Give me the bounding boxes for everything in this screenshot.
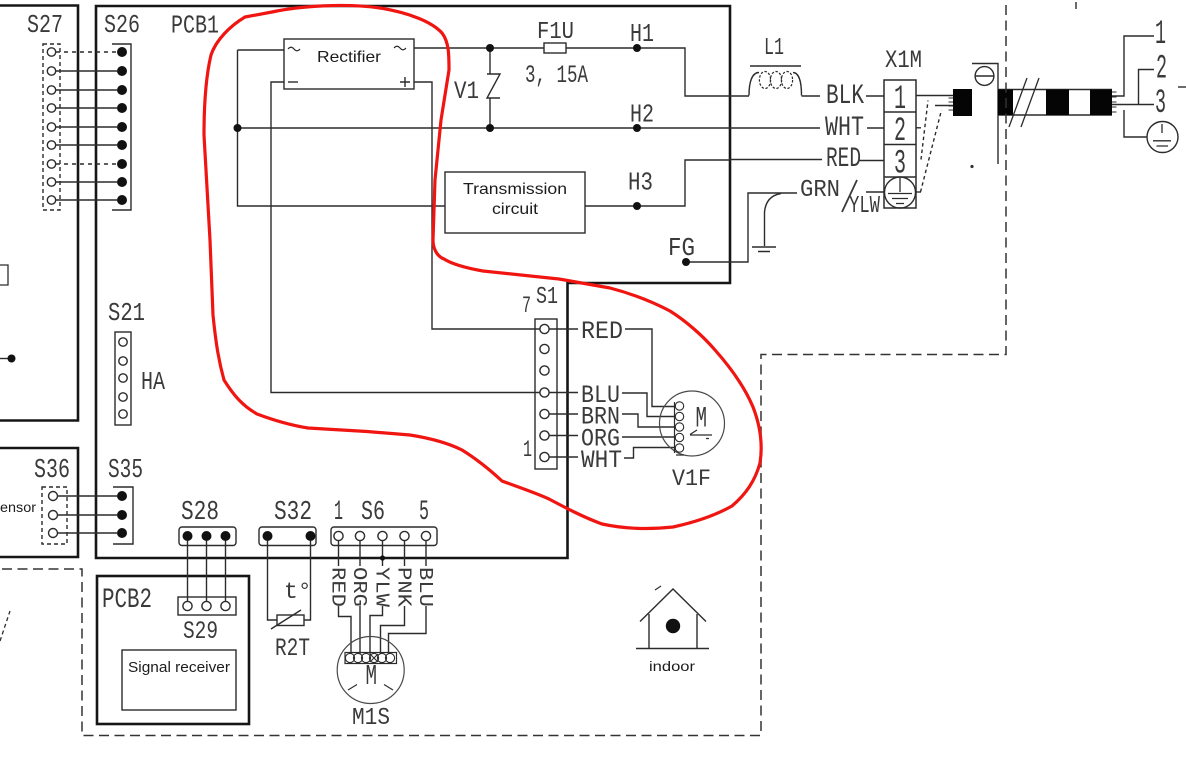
- house indoor icon apex tick: [655, 586, 661, 590]
- junction dot H3: [633, 202, 641, 210]
- svg-text:S35: S35: [108, 456, 143, 486]
- wire rectifier top to fuse to H1: [414, 48, 749, 96]
- connector S26 housing bracket: [112, 44, 131, 210]
- svg-text:S29: S29: [183, 617, 218, 646]
- connector S26 pins: [117, 47, 127, 205]
- svg-text:1: 1: [334, 497, 343, 528]
- connector S21 housing: [115, 332, 131, 425]
- svg-text:ORG: ORG: [348, 567, 370, 607]
- svg-text:S1: S1: [536, 284, 558, 311]
- connector S6 pins: [334, 531, 431, 540]
- label slash GRN/YLW: [842, 180, 857, 212]
- stray dot: [970, 165, 973, 168]
- svg-text:GRN: GRN: [800, 177, 840, 204]
- house indoor icon dot: [666, 619, 680, 633]
- connector S36 dashed housing: [42, 487, 67, 544]
- svg-text:H1: H1: [630, 19, 654, 49]
- svg-text:3: 3: [894, 146, 906, 184]
- svg-text:PCB1: PCB1: [171, 11, 219, 41]
- svg-text:BLK: BLK: [826, 81, 864, 112]
- wire PNK label to M1S connector: [381, 606, 405, 654]
- PCB1 board outline: [96, 6, 730, 558]
- svg-text:WHT: WHT: [581, 446, 622, 475]
- motor V1F connector bar: [675, 402, 685, 455]
- house indoor icon ground: [636, 648, 709, 650]
- junction dot V1 bottom: [486, 124, 494, 132]
- ground symbol near FG: [752, 247, 776, 252]
- inductor L1 top bar: [750, 65, 801, 67]
- wire S32 pin2 to R2T: [304, 541, 311, 620]
- wire S27 to S26 row3: [56, 89, 117, 91]
- rectifier minus mark: [288, 81, 298, 83]
- svg-text:1: 1: [1155, 16, 1166, 54]
- wire S32 pin1 to R2T: [268, 541, 278, 620]
- wire AC line rectifier left to H2 junction to transmission circuit: [238, 50, 446, 206]
- wire BLK from L1 to label and X1M terminal 1: [802, 95, 885, 97]
- wire S28 pin2 to S29 pin2: [206, 541, 208, 601]
- rectifier box: [284, 39, 414, 89]
- terminal block X1M divider 3: [884, 176, 916, 178]
- wire RED from PCB1 to label and X1M terminal 3: [730, 160, 884, 161]
- wire S27 to S26 row8: [56, 181, 117, 183]
- wire S28 pin1 to S29 pin1: [187, 541, 189, 601]
- connector S28 housing: [179, 527, 236, 546]
- svg-text:F1U: F1U: [537, 19, 574, 46]
- wire terminal 2 outdoor stub: [1139, 70, 1155, 105]
- svg-text:PCB2: PCB2: [102, 585, 152, 616]
- svg-text:3, 15A: 3, 15A: [525, 61, 588, 90]
- outdoor earth symbol: [1153, 124, 1171, 146]
- wire to outdoor earth: [1124, 110, 1147, 137]
- wire RED label to motor V1F pin1: [625, 329, 675, 407]
- wire S6 pin4 to PNK label: [404, 541, 406, 566]
- wire BLU label to M1S connector: [389, 606, 427, 654]
- wire transmission circuit to H3 and to PCB1 edge: [585, 160, 730, 206]
- cable sheath black band 1: [998, 90, 1013, 116]
- wire H2 horizontal line: [238, 127, 731, 129]
- wire WHT label to motor V1F pin5: [624, 448, 675, 459]
- svg-text:HA: HA: [141, 367, 165, 397]
- motor M1S connector housing: [345, 653, 397, 664]
- connector S29 housing: [178, 597, 236, 615]
- svg-text:1: 1: [523, 437, 532, 463]
- wire BLU label to motor V1F pin2: [622, 393, 675, 417]
- svg-text:L1: L1: [764, 35, 784, 62]
- cable clamp bracket: [972, 64, 998, 165]
- svg-text:M: M: [696, 403, 708, 437]
- wire S1 pin1 to WHT label: [550, 456, 579, 458]
- rectifier AC mark top-right: [394, 46, 406, 50]
- svg-text:S21: S21: [108, 298, 145, 328]
- motor M1S circle: [337, 637, 404, 704]
- motor M1S connector pins: [345, 653, 394, 662]
- svg-text:X1M: X1M: [885, 46, 922, 75]
- wire BRN label to motor V1F pin3: [622, 414, 675, 427]
- cable sheath outline: [998, 90, 1112, 116]
- wire S6 pin2 to ORG label: [359, 541, 361, 566]
- connector S21 pins: [119, 338, 127, 418]
- dashed diagonal left edge: [0, 611, 10, 641]
- cable ferrule block indoor: [953, 89, 972, 116]
- wire rectifier minus output to S1 pin4: [271, 82, 540, 393]
- terminal block X1M divider 2: [884, 144, 916, 146]
- svg-text:indoor: indoor: [649, 658, 695, 674]
- rectifier AC mark top-left: [288, 47, 300, 51]
- svg-text:Signal receiver: Signal receiver: [128, 659, 230, 676]
- connector S32 housing: [259, 527, 316, 546]
- left lower panel box (sensor): [0, 448, 78, 557]
- junction dot FG: [682, 258, 690, 266]
- wire S1 pin6 to ORG label: [550, 435, 579, 437]
- svg-text:S27: S27: [27, 10, 63, 40]
- terminal block X1M divider 1: [884, 111, 916, 113]
- connector S1 housing: [535, 319, 557, 469]
- svg-text:PNK: PNK: [393, 567, 415, 608]
- wire S27 to S26 row7 dashed: [56, 163, 117, 165]
- connector S35 pins: [117, 491, 127, 538]
- wire S6 pin1 to RED label: [338, 541, 340, 566]
- svg-text:H2: H2: [630, 100, 654, 130]
- wire ORG label to M1S connector: [359, 606, 361, 654]
- wire top right tick: [1075, 2, 1077, 9]
- house indoor icon walls: [649, 614, 697, 648]
- wire S1 pin5 to BRN label: [550, 413, 579, 415]
- outdoor earth circle: [1147, 122, 1178, 153]
- house indoor icon roof: [640, 589, 706, 622]
- wire S1 pin7 to RED label: [550, 328, 579, 330]
- cable clamp screw line: [975, 75, 994, 77]
- wire stub in left panel: [0, 358, 8, 360]
- thermistor R2T body: [277, 615, 304, 626]
- wire WHT from PCB1 to label and X1M terminal 2: [730, 127, 884, 129]
- svg-text:3: 3: [1155, 85, 1166, 123]
- wire stub X1M earth terminal: [916, 191, 921, 193]
- connector S6 housing: [331, 527, 437, 546]
- svg-text:Transmission: Transmission: [463, 181, 567, 198]
- svg-text:S36: S36: [34, 456, 70, 486]
- X1M earth terminal symbol: [888, 178, 912, 204]
- wire YLW label to M1S connector: [370, 606, 383, 654]
- cable sheath black band 2: [1046, 90, 1069, 116]
- wire S36 to S35 row2: [58, 514, 118, 516]
- svg-text:S26: S26: [104, 10, 140, 40]
- svg-text:RED: RED: [327, 567, 349, 607]
- svg-text:7: 7: [522, 293, 531, 319]
- connector S36 pins: [49, 492, 58, 538]
- svg-text:2: 2: [1156, 51, 1167, 89]
- svg-text:circuit: circuit: [492, 201, 539, 218]
- svg-text:WHT: WHT: [825, 113, 864, 144]
- motor V1F pins: [675, 402, 683, 452]
- junction dot fuse-left: [486, 44, 494, 52]
- wire S27 to S26 row9: [56, 199, 117, 201]
- X1M earth terminal circle: [885, 177, 916, 208]
- connector S1 pins: [540, 324, 549, 461]
- svg-text:H3: H3: [628, 168, 653, 198]
- varistor V1 body: [487, 48, 500, 128]
- wire field dashed from X1M terminal 2: [921, 101, 928, 160]
- connector S28 pins: [183, 531, 231, 541]
- motor V1F arrow: [690, 430, 712, 439]
- motor M1S tick right: [384, 685, 393, 691]
- wire S1 pin4 to BLU label: [550, 392, 579, 394]
- wire FG to GRN/YLW line: [686, 192, 884, 262]
- wire S27 to S26 row2: [56, 70, 117, 72]
- wire S36 to S35 row1: [58, 495, 118, 497]
- wire cable to terminal 3 outdoor: [1112, 104, 1154, 106]
- wire S6 pin3 to YLW label: [382, 541, 384, 566]
- svg-text:V1F: V1F: [672, 466, 711, 492]
- red freehand annotation loop: [204, 5, 761, 528]
- fuse F1U body: [544, 43, 566, 53]
- junction dot left panel: [8, 355, 16, 363]
- inductor L1 leads: [749, 73, 802, 96]
- wire field dashed from X1M earth: [921, 110, 942, 192]
- signal receiver box: [122, 650, 236, 710]
- wire cable second conductor: [935, 105, 953, 107]
- wire S6 pin5 to BLU label: [425, 541, 427, 566]
- junction dot H1: [633, 44, 641, 52]
- motor M1S tick left: [348, 685, 357, 691]
- junction dot YLW on PCB1 edge: [380, 555, 385, 560]
- wire S36 to S35 row3: [58, 532, 118, 534]
- svg-text:ensor: ensor: [0, 499, 36, 515]
- svg-text:t°: t°: [284, 579, 312, 605]
- inductor L1 coil loops: [759, 72, 792, 89]
- cable ferrule teeth: [949, 98, 954, 110]
- wire ground branch with curve: [765, 194, 782, 247]
- wire right edge stub: [1178, 86, 1186, 88]
- PCB2 board outline: [97, 576, 249, 724]
- wire S27 to S26 row5: [56, 126, 117, 128]
- wire S28 pin3 to S29 pin3: [225, 541, 227, 601]
- svg-text:FG: FG: [668, 233, 695, 263]
- junction dot H2: [633, 124, 641, 132]
- wire S27 to S26 row1 dashed: [56, 51, 117, 53]
- connector S35 housing bracket: [113, 487, 133, 544]
- cable clamp circle: [975, 67, 994, 86]
- svg-text:RED: RED: [581, 317, 623, 346]
- wire rectifier plus output to S1 pin7: [414, 82, 540, 329]
- wire RED label to M1S connector: [339, 606, 352, 654]
- connector S32 pins: [263, 531, 316, 541]
- wire cable to terminal 1 outdoor: [1112, 36, 1154, 96]
- transmission circuit box: [445, 172, 585, 233]
- left upper panel box: [0, 6, 78, 421]
- svg-text:M1S: M1S: [352, 705, 390, 732]
- connector S29 pins: [183, 601, 230, 610]
- bracket glyph left edge: [0, 265, 8, 285]
- rectifier plus mark: [400, 77, 410, 87]
- thermistor R2T strike line: [271, 610, 301, 629]
- connector S27 pins: [47, 48, 55, 204]
- wire ORG label to motor V1F pin4: [622, 436, 675, 438]
- motor V1F circle: [660, 391, 725, 456]
- svg-text:V1: V1: [454, 77, 479, 106]
- svg-text:BLU: BLU: [414, 567, 436, 607]
- svg-text:Rectifier: Rectifier: [317, 49, 382, 66]
- cable end teeth: [1112, 92, 1117, 112]
- svg-text:R2T: R2T: [275, 634, 310, 663]
- junction dot H2-left: [234, 124, 242, 132]
- terminal block X1M outline: [884, 80, 916, 208]
- connector S27 dashed housing: [43, 44, 60, 210]
- svg-text:5: 5: [419, 497, 429, 528]
- svg-text:YLW: YLW: [371, 567, 393, 608]
- wire S27 to S26 row6: [56, 144, 117, 146]
- svg-text:S32: S32: [274, 498, 312, 528]
- svg-text:RED: RED: [826, 144, 861, 175]
- wire S27 to S26 row4: [56, 107, 117, 109]
- svg-text:S6: S6: [361, 498, 385, 528]
- svg-text:S28: S28: [181, 498, 219, 528]
- cable sheath black band 3: [1090, 90, 1112, 116]
- wire stub X1M terminal 2: [916, 127, 921, 129]
- svg-text:YLW: YLW: [849, 193, 880, 220]
- svg-text:M: M: [366, 660, 378, 693]
- wire X1M terminal 1 to cable: [916, 95, 953, 97]
- cable continuation slashes: [1009, 78, 1039, 127]
